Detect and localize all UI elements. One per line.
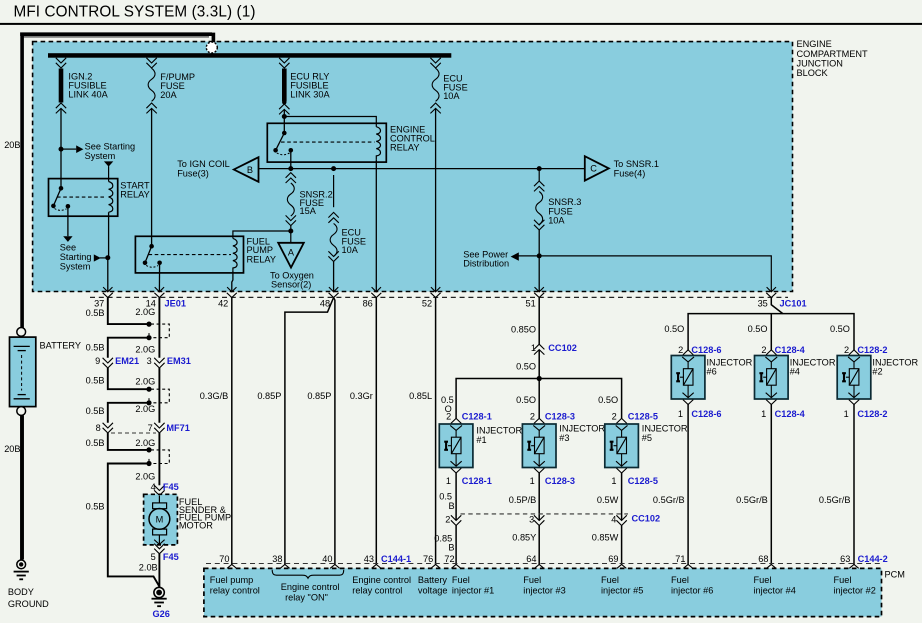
- start relay switch blade: [53, 188, 61, 206]
- svg-text:51: 51: [525, 298, 535, 308]
- joint connector 3: [146, 447, 169, 466]
- svg-text:1: 1: [611, 476, 616, 486]
- battery internal plates: [14, 346, 30, 398]
- svg-text:52: 52: [422, 298, 432, 308]
- svg-text:2.0G: 2.0G: [135, 344, 155, 354]
- svg-text:Engine control: Engine control: [352, 575, 411, 585]
- svg-text:EM21: EM21: [115, 356, 139, 366]
- svg-text:MOTOR: MOTOR: [179, 521, 213, 531]
- PCM pin 70: [227, 565, 236, 569]
- svg-text:C128-2: C128-2: [857, 345, 887, 355]
- svg-text:64: 64: [526, 554, 536, 564]
- PCM box: [204, 568, 882, 616]
- joint connector 2: [146, 387, 169, 406]
- svg-text:C128-6: C128-6: [691, 345, 721, 355]
- svg-text:68: 68: [758, 554, 768, 564]
- node injector feed junction: [537, 376, 542, 381]
- wire pin48 branch to PCM38 0.85P: [285, 298, 334, 565]
- wire pin51 0.85O: [538, 298, 540, 345]
- fuse ECU mid wave: [330, 223, 337, 256]
- fuel pump relay switch contact top: [149, 244, 154, 249]
- svg-text:G26: G26: [153, 609, 170, 619]
- engine control relay switch arc: [277, 153, 290, 155]
- svg-text:0.5O: 0.5O: [664, 324, 684, 334]
- start relay switch contact left: [51, 204, 56, 209]
- svg-text:2: 2: [678, 345, 683, 355]
- svg-text:C128-1: C128-1: [462, 476, 492, 486]
- wire ECU top fuse to pin 52: [435, 108, 437, 291]
- wire 0.5O to junction: [538, 350, 540, 379]
- wire coil to pin 42: [232, 271, 233, 292]
- connector MF71 pin 8: [103, 423, 113, 433]
- fuel pump relay switch contact left: [143, 261, 148, 266]
- wire to see starting system arrow: [61, 148, 76, 150]
- wire pin86 to PCM43 0.3Gr: [375, 298, 377, 565]
- pin 52 connector: [431, 287, 441, 297]
- svg-text:injector #5: injector #5: [601, 585, 643, 595]
- svg-text:#1: #1: [476, 435, 486, 445]
- engine control relay box: [267, 123, 386, 162]
- svg-text:#2: #2: [872, 367, 882, 377]
- svg-text:CC102: CC102: [548, 343, 577, 353]
- svg-text:2: 2: [844, 345, 849, 355]
- svg-text:C128-4: C128-4: [775, 409, 806, 419]
- svg-text:2.0G: 2.0G: [135, 472, 155, 482]
- fuse F/PUMP lower chevrons: [146, 103, 156, 113]
- PCM pin 72: [451, 565, 460, 569]
- svg-text:Fuel: Fuel: [834, 575, 852, 585]
- battery: [10, 337, 36, 407]
- svg-text:relay control: relay control: [210, 585, 260, 595]
- svg-text:relay control: relay control: [352, 585, 402, 595]
- svg-text:1: 1: [446, 476, 451, 486]
- PCM pin 38: [280, 565, 289, 569]
- wire battery to body ground thick: [20, 416, 24, 560]
- PCM pin 64: [535, 565, 544, 569]
- svg-text:injector #2: injector #2: [834, 585, 876, 595]
- connector F45 pin 4: [154, 485, 164, 495]
- svg-text:2: 2: [445, 515, 450, 525]
- fusible link IGN.2 lower chevrons: [56, 103, 66, 113]
- fuel pump relay switch arc: [146, 265, 158, 267]
- svg-text:0.3Gr: 0.3Gr: [350, 391, 373, 401]
- start relay actuation dashed: [57, 196, 105, 198]
- fuel pump relay switch contact out: [157, 261, 162, 266]
- svg-text:71: 71: [675, 554, 685, 564]
- svg-text:#5: #5: [642, 433, 652, 443]
- body ground symbol: [14, 560, 29, 579]
- fuse ECU mid upper chevrons: [328, 212, 338, 222]
- fusible link IGN.2 bar: [59, 69, 64, 103]
- svg-text:CC102: CC102: [632, 514, 661, 524]
- svg-text:C128-4: C128-4: [775, 345, 806, 355]
- engine compartment junction block box: [33, 42, 793, 292]
- motor circle M: [149, 509, 170, 530]
- wire SNSR.2 to node: [290, 226, 292, 243]
- pin 51 connector: [534, 287, 544, 297]
- JE01 connector row dashed: [90, 296, 788, 298]
- svg-text:injector #4: injector #4: [754, 585, 796, 595]
- node junction circle: [206, 42, 217, 53]
- svg-text:C128-2: C128-2: [857, 409, 887, 419]
- injector #5: [605, 418, 639, 473]
- svg-text:Engine control: Engine control: [281, 582, 340, 592]
- engine control relay actuation dashed: [281, 141, 375, 143]
- svg-text:20B: 20B: [4, 444, 20, 454]
- svg-text:0.5B: 0.5B: [86, 406, 105, 416]
- PCM pin 63: [849, 565, 858, 569]
- start relay switch contact out: [66, 204, 71, 209]
- svg-text:0.85W: 0.85W: [592, 533, 619, 543]
- wire switch out to B-C line: [290, 150, 292, 168]
- ground G26: [152, 587, 167, 606]
- svg-text:2.0G: 2.0G: [135, 376, 155, 386]
- start relay switch contact top: [59, 186, 64, 191]
- node see power distribution: [537, 253, 542, 258]
- svg-text:JC101: JC101: [780, 298, 807, 308]
- svg-text:15A: 15A: [300, 206, 317, 216]
- fuse ECU top chevrons: [430, 58, 440, 68]
- connector MF71 pin 7: [154, 423, 164, 433]
- svg-text:LINK 40A: LINK 40A: [68, 89, 108, 99]
- svg-text:0.5Gr/B: 0.5Gr/B: [653, 495, 685, 505]
- svg-text:7: 7: [148, 423, 153, 433]
- svg-text:35: 35: [758, 298, 768, 308]
- svg-text:0.5O: 0.5O: [516, 395, 536, 405]
- wire CC102 pin3 to PCM64 0.85Y: [538, 526, 540, 565]
- svg-text:0.85Y: 0.85Y: [512, 533, 536, 543]
- svg-text:0.85L: 0.85L: [409, 391, 432, 401]
- wire arrow to start relay coil: [108, 166, 110, 181]
- arrow from starting system into coil: [104, 161, 113, 166]
- fusible link IGN.2 : connector chevrons: [56, 58, 66, 68]
- start relay coil: [109, 182, 113, 213]
- wire branch over box to coil: [284, 117, 376, 127]
- svg-text:#6: #6: [707, 367, 717, 377]
- fuse SNSR.2 lower chevrons: [286, 215, 296, 225]
- svg-text:#3: #3: [559, 433, 569, 443]
- svg-text:Fuel: Fuel: [671, 575, 689, 585]
- node below link: [282, 100, 286, 104]
- injector #1: [439, 418, 473, 473]
- wire pin35 to upper injector rail: [771, 298, 783, 314]
- fuel pump relay box: [135, 236, 243, 273]
- svg-text:COMPARTMENT: COMPARTMENT: [797, 49, 869, 59]
- svg-text:C128-5: C128-5: [628, 411, 658, 421]
- svg-text:Fuel: Fuel: [452, 575, 470, 585]
- fuel pump relay actuation dashed: [149, 254, 232, 256]
- wire injector feed rail lower: [456, 379, 621, 419]
- PCM pin row dashed: [206, 563, 880, 565]
- svg-text:1: 1: [844, 409, 849, 419]
- svg-text:RELAY: RELAY: [120, 190, 149, 200]
- svg-text:C128-6: C128-6: [691, 409, 721, 419]
- wire 0.5B segment 3: [108, 368, 147, 389]
- svg-text:C144-2: C144-2: [858, 554, 888, 564]
- svg-text:PCM: PCM: [885, 570, 905, 580]
- arrow see starting system: [76, 145, 83, 153]
- node branch to starting system: [59, 147, 64, 152]
- svg-text:MF71: MF71: [166, 423, 190, 433]
- svg-text:1: 1: [531, 343, 536, 353]
- battery feed thick wire: [20, 33, 213, 328]
- PCM pin 76: [431, 565, 440, 569]
- brace pins 38 40: [272, 570, 344, 579]
- svg-text:0.3G/B: 0.3G/B: [200, 391, 229, 401]
- svg-text:1: 1: [678, 409, 683, 419]
- wire B to C: [259, 168, 585, 170]
- pin 14 connector: [154, 287, 164, 297]
- svg-text:10A: 10A: [342, 245, 359, 255]
- wire 2.0G main line: [158, 298, 160, 486]
- svg-text:0.5Gr/B: 0.5Gr/B: [819, 495, 851, 505]
- wire 2.0B to ground: [158, 554, 160, 587]
- injector #6: [671, 350, 705, 405]
- node engine control relay feed: [282, 114, 287, 119]
- PCM pin 68: [767, 565, 776, 569]
- connector CC102 pin 1: [534, 344, 544, 354]
- wire injector4 to PCM68 0.5Gr/B: [770, 405, 772, 565]
- PCM pin 69: [617, 565, 626, 569]
- bus bar: [48, 53, 451, 58]
- wire snsr3 to node: [538, 230, 540, 292]
- pin 35 connector: [766, 287, 776, 297]
- svg-text:48: 48: [320, 298, 330, 308]
- connector F45 pin 5: [154, 544, 164, 554]
- svg-text:M: M: [156, 514, 164, 524]
- svg-text:RELAY: RELAY: [247, 254, 276, 264]
- svg-text:Fuse(3): Fuse(3): [177, 168, 209, 178]
- svg-text:37: 37: [94, 298, 104, 308]
- injector #3: [522, 418, 556, 473]
- svg-text:42: 42: [218, 298, 228, 308]
- svg-text:0.5O: 0.5O: [598, 395, 618, 405]
- fuel sender and fuel pump motor box: [144, 494, 178, 545]
- wire pin48 to PCM40 0.85P: [334, 298, 335, 565]
- svg-text:1: 1: [761, 409, 766, 419]
- svg-text:injector #1: injector #1: [452, 585, 494, 595]
- svg-text:#4: #4: [790, 367, 800, 377]
- svg-text:ENGINE: ENGINE: [797, 39, 832, 49]
- wire injector5 to CC102 pin4: [621, 473, 623, 520]
- wire 0.5B segment 2: [108, 338, 147, 358]
- node SNSR.2 tap: [288, 166, 293, 171]
- connector CC102 pin 4: [616, 515, 626, 525]
- svg-text:Fuel: Fuel: [601, 575, 619, 585]
- svg-text:2: 2: [530, 411, 535, 421]
- wire snsr3 top: [538, 169, 540, 181]
- svg-text:voltage: voltage: [418, 585, 448, 595]
- arrow to starting system bottom: [63, 236, 72, 242]
- svg-text:4: 4: [151, 482, 156, 492]
- fuse SNSR.3 lower chevrons: [534, 220, 544, 230]
- svg-text:0.5O: 0.5O: [748, 324, 768, 334]
- svg-text:43: 43: [364, 554, 374, 564]
- wire 0.5B long to ground: [108, 464, 159, 587]
- fusible link ECU RLY lower chevrons: [279, 104, 289, 114]
- svg-text:Distribution: Distribution: [463, 259, 509, 269]
- wire into motor: [158, 496, 160, 503]
- node SNSR.3 tap: [537, 166, 542, 171]
- svg-text:0.5W: 0.5W: [597, 495, 619, 505]
- node pin37 wire: [105, 255, 110, 260]
- wire 0.5B segment 1: [108, 298, 147, 325]
- pin 86 connector: [371, 287, 381, 297]
- wire switch out to pin 14: [158, 263, 160, 292]
- pin 42 connector: [227, 287, 237, 297]
- wire F/PUMP fuse to fuel pump relay: [151, 108, 153, 246]
- start relay box: [49, 179, 118, 217]
- upper injector feed rail: [688, 314, 854, 351]
- svg-text:86: 86: [363, 298, 373, 308]
- svg-text:76: 76: [423, 554, 433, 564]
- svg-text:C128-3: C128-3: [545, 476, 575, 486]
- svg-text:JUNCTION: JUNCTION: [797, 58, 843, 68]
- svg-text:injector #6: injector #6: [671, 585, 713, 595]
- svg-text:0.5P/B: 0.5P/B: [509, 495, 537, 505]
- svg-text:BLOCK: BLOCK: [797, 68, 829, 78]
- wire start relay coil to pin 37: [107, 212, 110, 292]
- svg-text:0.5B: 0.5B: [86, 502, 105, 512]
- svg-text:20B: 20B: [4, 140, 20, 150]
- fuse ECU top lower chevrons: [430, 103, 440, 113]
- svg-text:0.5B: 0.5B: [86, 438, 105, 448]
- wire branch to fuel pump relay coil: [233, 231, 291, 238]
- engine control relay switch contact left: [273, 148, 278, 153]
- wire motor out: [158, 535, 160, 544]
- battery bottom terminal circle: [17, 407, 26, 416]
- svg-text:B: B: [448, 543, 454, 553]
- svg-text:LINK 30A: LINK 30A: [290, 89, 330, 99]
- PCM pin 71: [683, 565, 692, 569]
- PCM pin 43: [372, 565, 381, 569]
- fuse F/PUMP wave: [148, 68, 155, 101]
- svg-text:C128-1: C128-1: [462, 411, 492, 421]
- motor brush bottom: [153, 529, 167, 535]
- svg-text:63: 63: [840, 554, 850, 564]
- wire injector2 to PCM63 0.5Gr/B: [853, 405, 855, 565]
- svg-text:72: 72: [444, 554, 454, 564]
- svg-text:0.85O: 0.85O: [511, 325, 536, 335]
- engine control relay switch contact top: [282, 131, 287, 136]
- svg-text:2.0G: 2.0G: [135, 438, 155, 448]
- fuse ECU mid lower chevrons: [328, 251, 338, 261]
- fusible link ECU RLY bar: [282, 69, 287, 102]
- svg-text:2: 2: [761, 345, 766, 355]
- fuse SNSR.2 wave: [287, 183, 294, 216]
- svg-text:0.5Gr/B: 0.5Gr/B: [736, 495, 768, 505]
- connector triangle A: [278, 243, 304, 268]
- connector CC102 pin 3: [534, 515, 544, 525]
- svg-text:F45: F45: [163, 552, 179, 562]
- wire pin42 to PCM70 0.3G/B: [231, 298, 233, 565]
- svg-text:BATTERY: BATTERY: [40, 340, 82, 350]
- motor brush top: [153, 503, 167, 509]
- title rule: [0, 23, 922, 25]
- svg-text:injector #3: injector #3: [523, 585, 565, 595]
- start relay switch arc: [55, 209, 67, 211]
- connector triangle C: [585, 156, 609, 180]
- svg-text:0.5B: 0.5B: [86, 308, 105, 318]
- svg-text:9: 9: [95, 356, 100, 366]
- wire ECU fuse down: [333, 175, 335, 207]
- battery top terminal circle: [17, 328, 26, 337]
- svg-text:F45: F45: [163, 482, 179, 492]
- wire IGN.2 down to start relay: [60, 108, 62, 188]
- fuse F/PUMP chevrons: [146, 58, 156, 68]
- connector triangle B: [234, 157, 259, 182]
- svg-text:5: 5: [151, 552, 156, 562]
- svg-text:0.85P: 0.85P: [257, 391, 281, 401]
- arrow see power distribution: [511, 252, 519, 260]
- wire pin52 to PCM76 0.85L: [435, 298, 437, 565]
- wire injector6 to PCM71 0.5Gr/B: [687, 405, 689, 565]
- svg-text:A: A: [288, 247, 295, 257]
- svg-text:Fuel pump: Fuel pump: [210, 575, 253, 585]
- fuel pump relay switch blade: [145, 246, 152, 263]
- svg-text:10A: 10A: [548, 216, 565, 226]
- wire CC102 pin4 to PCM69 0.85W: [621, 526, 623, 565]
- svg-text:3: 3: [147, 356, 152, 366]
- wire start relay switch out: [67, 206, 69, 236]
- svg-text:69: 69: [608, 554, 618, 564]
- svg-text:JE01: JE01: [165, 298, 186, 308]
- wire 0.5B segment 5: [108, 433, 147, 450]
- svg-text:MFI CONTROL SYSTEM (3.3L) (1): MFI CONTROL SYSTEM (3.3L) (1): [14, 3, 256, 20]
- svg-text:B: B: [448, 501, 454, 511]
- svg-text:2: 2: [612, 411, 617, 421]
- fuse ECU top wave: [432, 68, 439, 101]
- svg-text:System: System: [60, 261, 91, 271]
- fusible link ECU RLY chevrons: [279, 58, 289, 68]
- svg-text:0.85P: 0.85P: [307, 391, 331, 401]
- fuse SNSR.3 upper chevrons: [534, 181, 544, 191]
- injector #2: [837, 350, 871, 405]
- svg-text:10A: 10A: [443, 91, 460, 101]
- connector EM31 pin 3: [154, 358, 164, 368]
- svg-text:C: C: [590, 164, 597, 174]
- svg-text:C128-5: C128-5: [628, 476, 658, 486]
- wire thin parallel under feed: [22, 36, 209, 38]
- connector CC102 pin 2: [451, 515, 461, 525]
- engine control relay switch contact out: [289, 148, 294, 153]
- wire CC102 pin2 to PCM72 0.85B: [455, 526, 457, 565]
- arrow from starting system into pin37 wire: [94, 254, 101, 261]
- pin 37 connector: [103, 287, 113, 297]
- svg-text:Battery: Battery: [418, 575, 448, 585]
- svg-text:0.5B: 0.5B: [86, 375, 105, 385]
- svg-text:2: 2: [446, 411, 451, 421]
- svg-text:Fuel: Fuel: [523, 575, 541, 585]
- PCM pin 40: [330, 565, 339, 569]
- svg-text:1: 1: [530, 476, 535, 486]
- svg-text:2.0G: 2.0G: [135, 307, 155, 317]
- wire coil to pin 86: [375, 160, 377, 292]
- svg-text:System: System: [85, 151, 116, 161]
- svg-text:3: 3: [529, 515, 534, 525]
- svg-text:GROUND: GROUND: [8, 599, 49, 609]
- svg-text:0.5B: 0.5B: [86, 342, 105, 352]
- wire injector3 to CC102 pin3: [538, 473, 540, 520]
- svg-text:2.0G: 2.0G: [135, 404, 155, 414]
- svg-text:C128-3: C128-3: [545, 411, 575, 421]
- fuel pump relay coil: [233, 238, 237, 270]
- node ECU fuse tap: [331, 166, 336, 171]
- node fuel pump relay coil branch: [288, 229, 293, 234]
- engine control relay coil: [376, 127, 380, 160]
- injector #4: [755, 350, 789, 405]
- svg-text:B: B: [247, 165, 253, 175]
